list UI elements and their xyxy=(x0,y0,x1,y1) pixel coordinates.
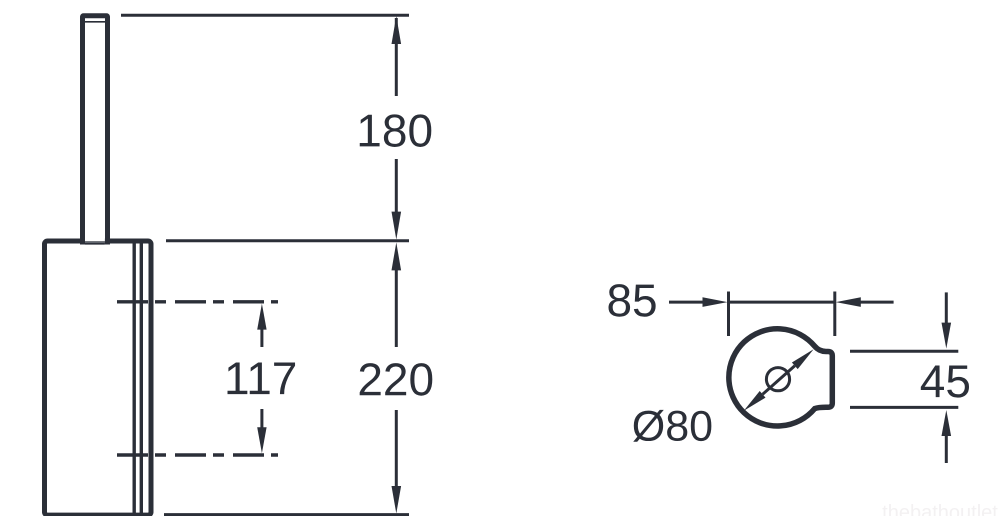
svg-text:117: 117 xyxy=(224,352,297,404)
svg-text:85: 85 xyxy=(606,274,657,326)
svg-text:220: 220 xyxy=(357,353,434,405)
svg-text:Ø80: Ø80 xyxy=(632,403,713,451)
svg-text:thebathoutlet: thebathoutlet xyxy=(882,502,998,516)
svg-text:180: 180 xyxy=(356,104,433,156)
svg-text:45: 45 xyxy=(920,355,971,407)
